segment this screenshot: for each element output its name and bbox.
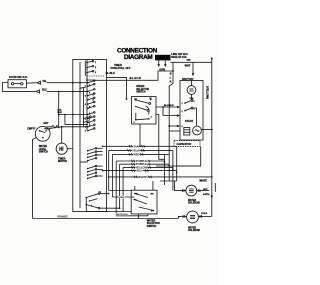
- timer box: [73, 60, 107, 212]
- svg-text:(YELLOW): (YELLOW): [206, 86, 210, 99]
- water selector feed TAN: [112, 196, 134, 198]
- bundle riser 2: [111, 154, 113, 197]
- timer contact row 1: [86, 62, 88, 64]
- wire riser1 to selector box: [109, 190, 132, 192]
- svg-text:WHITE: WHITE: [199, 181, 207, 183]
- svg-text:SOLENOID: SOLENOID: [188, 203, 200, 205]
- water selector bottom drop 1: [138, 214, 140, 219]
- timer contact row 15: [87, 130, 89, 132]
- timer edge junction dots: [72, 82, 81, 127]
- wire BLACK from timer to BLK rail: [94, 71, 173, 80]
- node timer motor top: [61, 126, 63, 128]
- wire BL-BLK from timer: [107, 77, 127, 99]
- door switch outer lead: [2, 83, 35, 92]
- wire bundle YELLOW: [123, 166, 173, 168]
- svg-text:ORANGE: ORANGE: [57, 216, 68, 219]
- svg-text:DIAGRAM: DIAGRAM: [124, 54, 152, 61]
- wire timer motor right: [67, 148, 73, 150]
- wire water level to bottom bus: [33, 138, 37, 219]
- capacitor dashed box: [174, 141, 200, 147]
- wire bundle RED: [112, 153, 168, 155]
- bundle riser 3: [115, 161, 117, 216]
- connector marks YELW: [128, 149, 145, 151]
- wire BLU to timer: [47, 90, 88, 92]
- speed selector contact HI: [150, 99, 152, 101]
- timer bottom contact 3: [89, 200, 90, 201]
- arrowhead on rail: [211, 196, 213, 199]
- svg-text:3: 3: [194, 108, 195, 110]
- node junction t3: [168, 125, 170, 127]
- svg-text:WHT: WHT: [185, 65, 191, 68]
- wire full terminal: [49, 127, 58, 129]
- title CONNECTION DIAGRAM: [117, 48, 158, 61]
- wire full-branch drop 2: [64, 115, 66, 125]
- svg-text:DOOR SW. N.O.: DOOR SW. N.O.: [9, 76, 28, 79]
- connector arrow bottom: [36, 90, 40, 93]
- water selector blade 3: [139, 207, 154, 211]
- water selector contact H2: [153, 210, 155, 212]
- speed selector lead left-bottom: [135, 113, 137, 120]
- svg-text:BLACK: BLACK: [130, 76, 142, 80]
- plug prong wire right: [164, 60, 166, 64]
- door switch blade: [14, 82, 21, 84]
- wire capacitor down right: [177, 147, 201, 166]
- timer contact row 14: [87, 126, 89, 128]
- plug prong arrowhead right: [164, 64, 167, 67]
- svg-text:SWITCH: SWITCH: [136, 91, 146, 94]
- protector circle: [187, 86, 196, 95]
- wire motor to capacitor: [185, 139, 187, 142]
- speed selector contact bottom-left: [135, 119, 137, 121]
- timer contact row 2: [86, 67, 88, 69]
- timer internal bus left: [79, 62, 81, 208]
- water selector contact C: [134, 199, 136, 201]
- water level contact 3: [42, 137, 44, 139]
- node TAN start: [102, 146, 104, 148]
- svg-text:WATER: WATER: [188, 227, 196, 230]
- node BLU branch: [58, 91, 60, 93]
- motor terminal digits: [182, 101, 195, 128]
- label WATER SOLENOID cold: [188, 227, 200, 233]
- timer internal bus segment b: [83, 88, 85, 127]
- wire drop from BLU-BLK: [162, 107, 164, 116]
- hot solenoid left terminal: [181, 189, 186, 192]
- svg-text:L: L: [170, 77, 172, 80]
- speed selector blade bottom: [136, 119, 149, 120]
- svg-text:6: 6: [89, 92, 91, 94]
- timer contact row 7: [87, 95, 89, 97]
- protector lead: [191, 81, 193, 86]
- arrowhead into motor t1: [177, 114, 180, 116]
- svg-text:3: 3: [95, 72, 97, 74]
- motor box: [180, 81, 203, 141]
- timer extra contact row 122: [83, 122, 84, 123]
- plug prong wire left: [158, 60, 160, 64]
- svg-text:SWITCH: SWITCH: [147, 225, 157, 228]
- svg-text:RED: RED: [134, 152, 140, 156]
- wire bundle TAN: [103, 145, 177, 147]
- speed selector contact bottom-right: [148, 118, 150, 120]
- wire to motor lower left: [169, 130, 180, 132]
- door switch box: [8, 80, 26, 88]
- svg-text:BLU-BLK: BLU-BLK: [164, 105, 174, 107]
- water selector contact H: [152, 193, 154, 195]
- label WATER SOLENOID hot: [188, 199, 200, 205]
- wire mid cluster feed: [80, 161, 88, 163]
- wire speed drop to motor terminal: [163, 115, 177, 117]
- door switch contact left: [11, 83, 13, 85]
- motor contact a: [184, 102, 186, 104]
- wire cold right to rail: [204, 215, 212, 217]
- water selector label: [147, 219, 160, 228]
- water selector blade 2: [134, 200, 147, 205]
- arrowhead white into motor: [192, 73, 194, 76]
- svg-text:BLU: BLU: [137, 169, 143, 173]
- wire bundle WHITE: [109, 176, 212, 178]
- connector marks PURPLE2: [132, 163, 150, 165]
- svg-text:6: 6: [85, 104, 87, 106]
- wire main winding to right rail: [201, 129, 211, 131]
- svg-text:4GPM: 4GPM: [203, 193, 209, 196]
- timer motor circle: [56, 143, 67, 154]
- timer internal bus mid: [86, 60, 88, 130]
- svg-text:CAPACITOR: CAPACITOR: [177, 143, 192, 146]
- water selector blade 1: [135, 194, 148, 198]
- timer extra contact row 88: [79, 88, 80, 89]
- hot solenoid right terminal: [197, 189, 202, 192]
- wire contact1 to riser: [100, 193, 109, 195]
- main winding circle: [193, 126, 202, 135]
- timer motor marks: [60, 147, 63, 151]
- cold solenoid marks: [190, 215, 195, 218]
- bundle riser 1: [108, 150, 110, 190]
- svg-text:YEL: YEL: [42, 80, 47, 83]
- timer extra contact row 118: [83, 118, 84, 119]
- connector marks YELLOW: [132, 166, 151, 168]
- node dots hatch: [164, 161, 166, 163]
- node junction BLACK/BLK: [172, 70, 174, 72]
- timer contact row 5: [87, 86, 89, 88]
- door switch contact right: [21, 83, 23, 85]
- wire bundle BLUE: [103, 170, 177, 172]
- svg-text:PUSH-PULL OFF: PUSH-PULL OFF: [111, 67, 131, 70]
- main winding marks: [195, 130, 199, 132]
- wire BLK vertical from plug: [169, 62, 173, 131]
- label BLK vertical: [170, 73, 172, 84]
- wire into motor terminal 3: [169, 125, 177, 127]
- bundle riser 5: [122, 167, 124, 211]
- svg-text:4: 4: [151, 116, 153, 119]
- timer contact row 4: [87, 82, 89, 84]
- svg-text:FULL: FULL: [44, 129, 50, 131]
- svg-text:5: 5: [194, 101, 195, 103]
- timer contact digits: [89, 62, 97, 127]
- right rail wire (white): [211, 58, 213, 216]
- timer contact row 9: [87, 103, 89, 105]
- svg-text:YELW: YELW: [132, 148, 140, 152]
- wire orange bottom bus: [33, 218, 179, 220]
- svg-text:BLU: BLU: [42, 89, 47, 92]
- arrowhead into motor t3: [177, 125, 180, 127]
- door switch top lead: [26, 82, 36, 85]
- svg-text:WATER: WATER: [188, 199, 196, 202]
- timer contact row 3: [86, 72, 88, 74]
- connector marks WHITE: [134, 176, 152, 178]
- wire YEL to timer: [47, 82, 88, 84]
- node WHITE start: [108, 176, 110, 178]
- svg-text:1: 1: [182, 103, 183, 105]
- water level contact 2: [45, 130, 47, 132]
- arrowhead into motor t2: [177, 106, 180, 108]
- wire protector to contacts: [191, 94, 193, 99]
- timer contact T: [87, 78, 94, 83]
- timer contact row 6: [87, 91, 89, 93]
- speed selector contact c3: [135, 106, 137, 108]
- node BLUE start: [102, 170, 104, 172]
- svg-text:START: START: [185, 120, 194, 123]
- timer bottom contact 2: [86, 204, 88, 206]
- svg-text:3: 3: [85, 130, 87, 132]
- timer contact row 13: [87, 122, 89, 124]
- timer contact row 10: [87, 108, 89, 110]
- node drop: [162, 106, 164, 108]
- water selector contact W: [134, 193, 136, 195]
- wire hot right stub: [202, 190, 209, 192]
- wire speed box right-down: [156, 115, 165, 160]
- svg-text:WHITE-BLK: WHITE-BLK: [116, 214, 129, 216]
- svg-text:BL-BLK: BL-BLK: [106, 72, 115, 75]
- wire cold left to orange bus: [179, 216, 182, 218]
- svg-text:SWITCH: SWITCH: [39, 151, 49, 154]
- wire speed box bottom to TAN: [139, 124, 141, 146]
- hot solenoid marks: [189, 189, 194, 192]
- water selector box: [131, 190, 157, 214]
- svg-text:K: K: [170, 81, 172, 84]
- speed selector arc: [146, 106, 150, 115]
- svg-text:1: 1: [95, 62, 97, 64]
- wire bundle PURPLE 2: [120, 163, 169, 165]
- wire bundle YELW: [109, 149, 173, 151]
- speed selector blade top: [136, 100, 149, 103]
- svg-text:4: 4: [182, 125, 184, 128]
- timer contact row 12: [87, 118, 89, 120]
- svg-text:2: 2: [85, 118, 87, 120]
- svg-text:2: 2: [182, 111, 183, 113]
- protector internal marks: [189, 88, 193, 90]
- wire branch to timer at 114.5: [59, 114, 88, 116]
- timer dashed cam line: [87, 75, 104, 77]
- svg-text:TAN: TAN: [134, 144, 139, 148]
- svg-text:BLK: BLK: [58, 112, 63, 114]
- svg-text:B: B: [170, 73, 172, 76]
- svg-text:SOLENOID: SOLENOID: [188, 230, 200, 232]
- cold solenoid left terminal: [182, 215, 187, 218]
- wire full-level drop: [58, 92, 60, 128]
- wire bottom bus to selector: [86, 211, 131, 213]
- wire GRY to timer (with pigtail): [47, 126, 88, 128]
- mid cluster stubs to bus: [97, 148, 103, 176]
- svg-text:GRY: GRY: [43, 122, 48, 125]
- speed selector box: [132, 97, 157, 125]
- plug (line cord) black block: [155, 55, 171, 61]
- cold solenoid right terminal: [198, 215, 203, 218]
- wire white drop to motor: [192, 62, 194, 73]
- timer contact row 11: [87, 114, 89, 116]
- node right rail: [211, 129, 213, 131]
- svg-text:TAN: TAN: [120, 196, 125, 199]
- timer bottom contact 1: [86, 197, 88, 199]
- label TIMER MOTOR: [58, 157, 67, 163]
- wire BLU-BLK from speed switch to motor terminal 2: [156, 106, 177, 108]
- label LINE 120VAC 60HZ 1PH: [171, 53, 191, 61]
- water selector bottom drop 2: [147, 214, 149, 216]
- speed selector contact LO: [135, 99, 137, 101]
- right hatch verticals: [164, 155, 166, 185]
- label TIMER PUSH-PULL OFF: [111, 64, 131, 70]
- short stub right of rail: [214, 183, 216, 192]
- node BL-BLK joins WH-PNK: [126, 98, 128, 100]
- water level contact 1: [39, 130, 41, 132]
- svg-text:GND: GND: [187, 59, 192, 61]
- wire motor to capacitor 2: [196, 139, 198, 142]
- svg-text:EMPTY: EMPTY: [27, 127, 36, 130]
- water selector riser top 1: [134, 186, 136, 190]
- timer mid cluster contacts: [87, 148, 97, 180]
- svg-text:9: 9: [85, 95, 87, 97]
- wire timer motor top: [61, 127, 63, 143]
- node branch: [58, 114, 60, 116]
- wire bundle PURPLE 1: [116, 160, 164, 162]
- wire contact2 to riser: [100, 207, 120, 209]
- connector marks BLUE: [132, 169, 149, 171]
- connector marks PURPLE1: [132, 160, 150, 162]
- connector marks RED: [129, 153, 143, 155]
- wire contact to start winding: [193, 108, 197, 126]
- svg-text:COLD: COLD: [201, 213, 208, 215]
- hot solenoid circle: [186, 185, 197, 196]
- wire WHITE-BLK: [116, 215, 148, 217]
- timer contact row 8: [87, 99, 89, 101]
- plug prong arrowhead left: [157, 64, 160, 67]
- bundle riser 4: [119, 164, 121, 208]
- connector arrow top: [37, 81, 41, 84]
- svg-text:7: 7: [85, 86, 87, 88]
- cold solenoid circle: [187, 211, 199, 223]
- svg-text:2: 2: [89, 119, 91, 121]
- svg-text:60HZ-1P 15A: 60HZ-1P 15A: [171, 56, 186, 59]
- label WATER LEVEL SWITCH: [39, 145, 49, 154]
- motor contact b: [184, 110, 186, 112]
- wire bottom contact feed: [85, 198, 87, 212]
- speed selector label: [136, 85, 149, 94]
- connector marks TAN: [129, 145, 145, 147]
- wire hot left to hatch: [175, 181, 182, 191]
- svg-text:2: 2: [95, 67, 97, 69]
- timer internal bus segment c: [84, 61, 86, 77]
- water selector riser top 2: [152, 181, 154, 190]
- svg-text:MOTOR: MOTOR: [182, 77, 194, 81]
- label J1 BLK: [58, 110, 63, 115]
- start winding coil: [184, 128, 190, 136]
- water level switch circle: [35, 126, 50, 141]
- wire white from plug to right rail: [171, 61, 212, 63]
- arrowhead on right rail top: [211, 58, 213, 61]
- svg-text:MOTOR: MOTOR: [58, 160, 67, 163]
- svg-text:WHITE: WHITE: [138, 175, 147, 179]
- water level blade: [40, 131, 46, 133]
